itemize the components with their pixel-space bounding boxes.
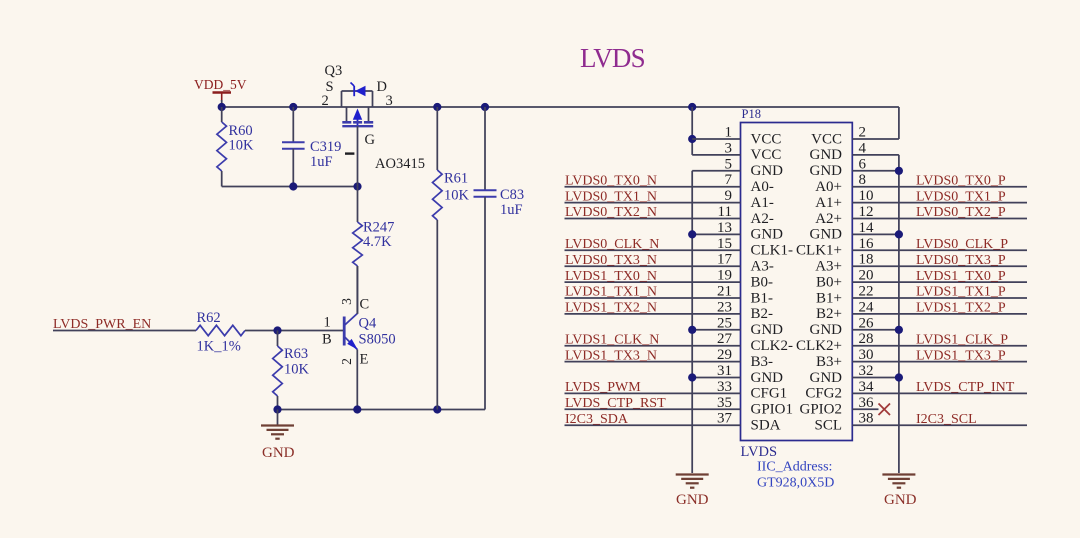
svg-text:5: 5 (725, 156, 733, 172)
node C319 bottom junction (289, 182, 297, 190)
svg-text:CFG1: CFG1 (751, 386, 788, 402)
svg-text:8: 8 (859, 172, 867, 188)
svg-text:1uF: 1uF (310, 154, 333, 170)
wire net LVDS1_CLK_N to pin 27 (565, 345, 741, 347)
svg-text:3: 3 (725, 140, 733, 156)
wire pin 20 to net LVDS1_TX0_P (852, 281, 1027, 283)
svg-text:LVDS_CTP_INT: LVDS_CTP_INT (916, 380, 1015, 395)
wire VDD stub (221, 100, 223, 107)
svg-text:3: 3 (386, 93, 393, 109)
svg-text:LVDS_PWM: LVDS_PWM (565, 380, 641, 395)
node VDD junction (218, 103, 226, 111)
svg-text:LVDS1_TX2_N: LVDS1_TX2_N (565, 301, 657, 316)
node R61 top junction (433, 103, 441, 111)
wire pin 25 (692, 329, 740, 331)
svg-text:27: 27 (717, 331, 733, 347)
svg-text:CLK2-: CLK2- (751, 338, 794, 354)
svg-text:CLK2+: CLK2+ (796, 338, 842, 354)
capacitor C319 (292, 107, 294, 142)
wire R62 to Q4 base (245, 330, 343, 332)
svg-text:CLK1-: CLK1- (751, 243, 794, 259)
wire pin 1 (692, 138, 740, 140)
wire pin 13 (692, 233, 740, 235)
svg-text:GND: GND (751, 163, 784, 179)
svg-text:2: 2 (322, 93, 329, 109)
svg-text:A1+: A1+ (815, 195, 842, 211)
svg-text:1: 1 (324, 315, 331, 331)
Q4 emitter wire (356, 350, 358, 410)
wire net LVDS0_CLK_N to pin 15 (565, 249, 741, 251)
svg-text:R62: R62 (197, 310, 221, 326)
node R63 top junction (273, 326, 281, 334)
svg-text:S8050: S8050 (359, 332, 396, 348)
svg-text:LVDS0_TX2_P: LVDS0_TX2_P (916, 205, 1006, 220)
wire net LVDS0_TX2_N to pin 11 (565, 218, 741, 220)
svg-text:B3+: B3+ (816, 354, 842, 370)
svg-text:VCC: VCC (751, 131, 782, 147)
svg-text:C: C (360, 297, 370, 313)
svg-text:32: 32 (859, 363, 874, 379)
wire pin 32 (852, 377, 899, 379)
svg-text:A3-: A3- (751, 259, 774, 275)
node pin32 junction (895, 373, 903, 381)
svg-text:I2C3_SDA: I2C3_SDA (565, 412, 629, 427)
svg-text:22: 22 (859, 284, 874, 300)
svg-text:LVDS0_CLK_N: LVDS0_CLK_N (565, 237, 659, 252)
svg-text:VDD_5V: VDD_5V (194, 77, 247, 92)
capacitor C83 (484, 107, 486, 190)
resistor R63 (277, 331, 279, 347)
svg-text:7: 7 (725, 172, 733, 188)
wire pin 31 (692, 377, 740, 379)
svg-text:SDA: SDA (751, 418, 781, 434)
svg-text:LVDS: LVDS (580, 43, 645, 73)
svg-text:10: 10 (859, 188, 874, 204)
wire pin 6 (852, 170, 899, 172)
svg-text:GND: GND (810, 370, 843, 386)
svg-text:A1-: A1- (751, 195, 774, 211)
svg-text:10K: 10K (284, 362, 310, 378)
node C83 top junction (481, 103, 489, 111)
node pin26 junction (895, 326, 903, 334)
svg-text:I2C3_SCL: I2C3_SCL (916, 412, 977, 427)
svg-text:E: E (360, 352, 369, 368)
wire pin 5 (692, 170, 740, 172)
svg-text:LVDS0_CLK_P: LVDS0_CLK_P (916, 237, 1008, 252)
svg-text:15: 15 (717, 236, 732, 252)
svg-text:R61: R61 (444, 171, 468, 187)
svg-text:1K_1%: 1K_1% (197, 339, 241, 355)
svg-text:LVDS1_TX1_P: LVDS1_TX1_P (916, 285, 1006, 300)
svg-text:28: 28 (859, 331, 874, 347)
connector P18 box (741, 123, 853, 441)
svg-text:GPIO2: GPIO2 (799, 402, 842, 418)
svg-text:C83: C83 (500, 187, 524, 203)
svg-text:LVDS1_TX3_N: LVDS1_TX3_N (565, 348, 657, 363)
Q3 gate polarity dash (345, 152, 354, 154)
svg-text:2: 2 (859, 125, 867, 141)
wire lower-left rail (222, 186, 358, 188)
wire pin 16 to net LVDS0_CLK_P (852, 249, 1027, 251)
svg-text:GND: GND (810, 227, 843, 243)
wire pin 3 (692, 154, 740, 156)
wire LVDS_PWR_EN to R62 (53, 330, 196, 332)
wire pin 8 to net LVDS0_TX0_P (852, 186, 1027, 188)
svg-text:37: 37 (717, 411, 733, 427)
svg-text:LVDS: LVDS (741, 444, 778, 460)
Q4 collector wire (356, 266, 358, 314)
svg-text:LVDS_CTP_RST: LVDS_CTP_RST (565, 396, 666, 411)
node VCC bus junction (688, 103, 696, 111)
wire pin 10 to net LVDS0_TX1_P (852, 202, 1027, 204)
wire pin 22 to net LVDS1_TX1_P (852, 297, 1027, 299)
svg-text:B2-: B2- (751, 306, 774, 322)
svg-text:LVDS0_TX1_P: LVDS0_TX1_P (916, 189, 1006, 204)
svg-text:LVDS0_TX0_N: LVDS0_TX0_N (565, 173, 657, 188)
svg-text:LVDS1_TX0_P: LVDS1_TX0_P (916, 269, 1006, 284)
node pin31 junction (688, 373, 696, 381)
svg-text:2: 2 (339, 358, 354, 365)
svg-text:A2-: A2- (751, 211, 774, 227)
svg-text:16: 16 (859, 236, 875, 252)
wire pin 36 stub (852, 408, 878, 410)
svg-text:25: 25 (717, 315, 732, 331)
wire pin 24 to net LVDS1_TX2_P (852, 313, 1027, 315)
transistor Q4 (NPN S8050) symbol (343, 317, 346, 346)
node R61 bottom junction (433, 405, 441, 413)
wire pin 30 to net LVDS1_TX3_P (852, 361, 1027, 363)
no-connect X on pin 36 (879, 404, 891, 416)
svg-text:LVDS0_TX3_N: LVDS0_TX3_N (565, 253, 657, 268)
svg-text:36: 36 (859, 395, 875, 411)
svg-text:30: 30 (859, 347, 874, 363)
svg-text:GPIO1: GPIO1 (751, 402, 794, 418)
svg-text:LVDS1_TX2_P: LVDS1_TX2_P (916, 301, 1006, 316)
svg-text:C319: C319 (310, 139, 341, 155)
wire net LVDS1_TX3_N to pin 29 (565, 361, 741, 363)
svg-text:LVDS0_TX1_N: LVDS0_TX1_N (565, 189, 657, 204)
ground GND (middle) (676, 473, 709, 475)
svg-text:SCL: SCL (814, 418, 842, 434)
svg-text:31: 31 (717, 363, 732, 379)
svg-text:19: 19 (717, 268, 732, 284)
svg-text:GND: GND (884, 492, 917, 508)
resistor R247 (357, 187, 359, 223)
svg-text:GND: GND (751, 227, 784, 243)
resistor R61 (436, 107, 438, 170)
svg-text:LVDS1_TX0_N: LVDS1_TX0_N (565, 269, 657, 284)
wire net LVDS0_TX0_N to pin 7 (565, 186, 741, 188)
wire pin 18 to net LVDS0_TX3_P (852, 265, 1027, 267)
svg-text:B1-: B1- (751, 290, 774, 306)
node pin6 junction (895, 167, 903, 175)
svg-text:LVDS0_TX2_N: LVDS0_TX2_N (565, 205, 657, 220)
svg-text:P18: P18 (742, 107, 761, 121)
svg-text:26: 26 (859, 315, 875, 331)
ground GND (right) (882, 473, 915, 475)
svg-text:VCC: VCC (751, 147, 782, 163)
wire pin 4 (852, 154, 899, 156)
svg-text:Q3: Q3 (325, 63, 343, 79)
svg-text:B1+: B1+ (816, 290, 842, 306)
svg-text:4: 4 (859, 140, 867, 156)
svg-text:35: 35 (717, 395, 732, 411)
wire net LVDS_CTP_RST to pin 35 (565, 408, 741, 410)
svg-text:14: 14 (859, 220, 875, 236)
resistor R60 (221, 107, 223, 122)
svg-text:9: 9 (725, 188, 733, 204)
node GND junction (273, 405, 281, 413)
svg-text:10K: 10K (229, 138, 255, 154)
wire net LVDS0_TX1_N to pin 9 (565, 202, 741, 204)
svg-text:AO3415: AO3415 (375, 156, 425, 172)
wire pin 28 to net LVDS1_CLK_P (852, 345, 1027, 347)
svg-text:GND: GND (810, 322, 843, 338)
transistor Q3 (P-MOSFET AO3415) symbol (341, 91, 343, 107)
svg-text:A0+: A0+ (815, 179, 842, 195)
svg-text:B0+: B0+ (816, 274, 842, 290)
node gate-R247 junction (353, 182, 361, 190)
svg-text:LVDS1_TX1_N: LVDS1_TX1_N (565, 285, 657, 300)
svg-text:B: B (322, 332, 332, 348)
wire net I2C3_SDA to pin 37 (565, 424, 741, 426)
wire left GND bus (691, 171, 693, 473)
svg-text:CFG2: CFG2 (805, 386, 842, 402)
wire Q3 gate to rail (357, 126, 359, 186)
svg-text:GND: GND (262, 445, 295, 461)
wire net LVDS1_TX0_N to pin 19 (565, 281, 741, 283)
svg-text:LVDS1_CLK_P: LVDS1_CLK_P (916, 332, 1008, 347)
wire VCC bus to pin 3 (691, 107, 693, 155)
wire net LVDS0_TX3_N to pin 17 (565, 265, 741, 267)
svg-text:12: 12 (859, 204, 874, 220)
svg-text:G: G (365, 132, 376, 148)
svg-text:3: 3 (339, 298, 354, 305)
svg-text:24: 24 (859, 299, 875, 315)
wire pin 12 to net LVDS0_TX2_P (852, 218, 1027, 220)
svg-text:23: 23 (717, 299, 732, 315)
svg-text:IIC_Address:: IIC_Address: (757, 460, 832, 475)
node C319 top junction (289, 103, 297, 111)
svg-text:Q4: Q4 (359, 316, 377, 332)
svg-text:A2+: A2+ (815, 211, 842, 227)
wire net LVDS1_TX1_N to pin 21 (565, 297, 741, 299)
svg-text:LVDS1_TX3_P: LVDS1_TX3_P (916, 348, 1006, 363)
svg-text:11: 11 (718, 204, 732, 220)
node Q4 emitter junction (353, 405, 361, 413)
wire pin 14 (852, 233, 899, 235)
svg-text:VCC: VCC (811, 131, 842, 147)
wire pin 34 to net LVDS_CTP_INT (852, 392, 1027, 394)
svg-text:B3-: B3- (751, 354, 774, 370)
wire right GND bus (898, 155, 900, 473)
svg-text:1: 1 (725, 125, 733, 141)
svg-text:A0-: A0- (751, 179, 774, 195)
svg-text:34: 34 (859, 379, 875, 395)
svg-text:17: 17 (717, 252, 733, 268)
svg-text:20: 20 (859, 268, 874, 284)
svg-text:10K: 10K (444, 188, 470, 204)
node pin25 junction (688, 326, 696, 334)
wire net LVDS_PWM to pin 33 (565, 392, 741, 394)
node pin13 junction (688, 230, 696, 238)
svg-text:A3+: A3+ (815, 259, 842, 275)
svg-text:29: 29 (717, 347, 732, 363)
svg-text:1uF: 1uF (500, 202, 523, 218)
wire pin 26 (852, 329, 899, 331)
svg-text:18: 18 (859, 252, 874, 268)
svg-text:B2+: B2+ (816, 306, 842, 322)
svg-text:33: 33 (717, 379, 732, 395)
svg-text:GT928,0X5D: GT928,0X5D (757, 476, 834, 491)
node pin14 junction (895, 230, 903, 238)
svg-text:LVDS0_TX0_P: LVDS0_TX0_P (916, 173, 1006, 188)
wire bottom rail (278, 409, 486, 411)
node pin1 junction (688, 135, 696, 143)
wire rail to pin 2 (898, 107, 900, 139)
svg-text:21: 21 (717, 284, 732, 300)
svg-text:LVDS1_CLK_N: LVDS1_CLK_N (565, 332, 659, 347)
wire top rail VDD to connector (222, 106, 899, 108)
svg-text:13: 13 (717, 220, 732, 236)
svg-text:GND: GND (810, 163, 843, 179)
svg-text:B0-: B0- (751, 274, 774, 290)
svg-text:LVDS0_TX3_P: LVDS0_TX3_P (916, 253, 1006, 268)
svg-text:GND: GND (751, 322, 784, 338)
svg-text:4.7K: 4.7K (363, 234, 392, 250)
svg-text:6: 6 (859, 156, 867, 172)
svg-text:R63: R63 (284, 346, 308, 362)
wire net LVDS1_TX2_N to pin 23 (565, 313, 741, 315)
resistor R62 (196, 325, 245, 335)
svg-text:CLK1+: CLK1+ (796, 243, 842, 259)
wire pin 38 to net I2C3_SCL (852, 424, 1027, 426)
svg-text:GND: GND (751, 370, 784, 386)
ground GND (left) (277, 410, 279, 425)
svg-text:GND: GND (810, 147, 843, 163)
wire pin 2 (852, 138, 899, 140)
svg-text:GND: GND (676, 492, 709, 508)
svg-text:38: 38 (859, 411, 874, 427)
